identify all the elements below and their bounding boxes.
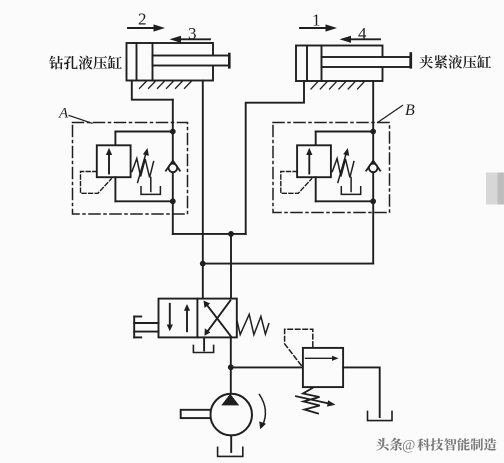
- wire: box A output to P-junction: [173, 233, 246, 235]
- unit B: flow arrow: [308, 153, 310, 174]
- unit A: lower connector wire: [115, 200, 172, 202]
- pump drive shaft: [181, 410, 211, 418]
- scrollbar thumb: [486, 173, 504, 205]
- unit A: sequence valve body: [97, 145, 131, 177]
- manual actuator: [134, 317, 158, 338]
- unit B: inlet stub: [315, 132, 317, 146]
- right position cross arrow 2: [207, 301, 230, 332]
- valve tank symbol: [193, 345, 213, 352]
- pump rotation arrow: [259, 395, 265, 427]
- unit B: pilot line (dashed): [281, 172, 312, 194]
- arrow 1: [300, 24, 337, 31]
- leader line A: [69, 116, 92, 124]
- unit B: adjustable spring: [332, 159, 354, 178]
- arrow 2: [128, 24, 165, 31]
- drilling cylinder rod end: [228, 54, 231, 67]
- valve return spring: [237, 314, 269, 334]
- drilling cylinder piston: [152, 43, 154, 81]
- directional valve divider: [196, 299, 198, 338]
- unit B: check valve: [369, 164, 378, 173]
- directional valve body: [159, 299, 237, 338]
- arrow 4: [340, 36, 381, 43]
- unit A: upper junction node: [170, 129, 176, 135]
- drilling cylinder body: [127, 43, 214, 81]
- left position up arrow: [186, 309, 188, 331]
- clamping cylinder rod: [322, 57, 411, 67]
- wire: valve P to pump: [230, 337, 232, 393]
- relief valve adjustable spring: [303, 388, 320, 414]
- unit A: outlet stub: [114, 177, 116, 201]
- sequence valve unit B: [281, 129, 380, 205]
- unit A: upper connector wire: [115, 131, 172, 133]
- svg-text:B: B: [405, 102, 415, 119]
- enclosure box B (dash-dot): [273, 123, 390, 213]
- unit A: drain line: [150, 178, 152, 192]
- pump circle: [210, 394, 252, 436]
- wire: clamp cap port to junction: [246, 81, 304, 234]
- enclosure box A (dash-dot): [73, 123, 188, 215]
- sequence valve unit A: [81, 129, 180, 205]
- relief tank symbol: [368, 411, 393, 420]
- pump flow triangle: [221, 394, 239, 406]
- valve tank stub: [203, 337, 205, 350]
- unit B: drain tank: [341, 187, 360, 195]
- relief valve pilot line (dashed): [285, 329, 313, 365]
- unit A: check valve: [169, 164, 178, 173]
- unit B: lower junction node: [370, 198, 376, 204]
- clamping cylinder rod end: [409, 54, 412, 68]
- drilling cylinder cap line: [136, 43, 138, 81]
- unit A: adjustable spring: [132, 159, 154, 178]
- pump suction line: [230, 435, 232, 452]
- wire: clamp rod port / main line through box B: [372, 81, 374, 264]
- svg-text:1: 1: [312, 11, 321, 30]
- clamping cylinder piston: [321, 46, 323, 82]
- label: clamping hydraulic cylinder: [419, 55, 491, 69]
- wire: main line through box A: [172, 100, 174, 234]
- wire: drill rod port down to directional valve: [202, 81, 204, 299]
- clamping cylinder body: [296, 46, 383, 82]
- right position cross arrow 1: [207, 304, 231, 336]
- arrow 3: [170, 36, 211, 43]
- unit A: pilot line (dashed): [81, 172, 112, 194]
- unit A: inlet stub: [114, 132, 116, 146]
- junction node rod line: [200, 261, 206, 267]
- wire: drill cap port to valve block A: [132, 81, 173, 100]
- drilling cylinder mount hatching: [140, 82, 192, 89]
- unit B: upper connector wire: [316, 131, 373, 133]
- svg-text:2: 2: [138, 10, 147, 29]
- left position down arrow: [169, 304, 171, 327]
- relief valve body: [303, 348, 343, 387]
- unit B: drain line: [350, 178, 352, 192]
- clamping cylinder mount hatching: [311, 82, 364, 89]
- unit B: sequence valve body: [297, 145, 331, 177]
- junction node P branch: [228, 231, 234, 237]
- label: drilling hydraulic cylinder: [49, 56, 122, 70]
- pump tank symbol: [218, 447, 243, 456]
- wire: relief outlet to tank: [343, 367, 380, 417]
- wire: rod line to box B output: [203, 263, 373, 265]
- wire: junction down to valve P: [230, 234, 232, 299]
- junction node relief branch: [228, 364, 234, 370]
- leader line B: [378, 106, 403, 123]
- svg-text:A: A: [58, 106, 69, 122]
- svg-text:@: @: [402, 438, 415, 454]
- unit B: lower connector wire: [316, 200, 373, 202]
- clamping cylinder cap line: [306, 46, 308, 82]
- relief valve flow arrow: [306, 357, 334, 359]
- wire: pump line to relief valve: [231, 366, 303, 368]
- watermark: toutiao tech: [376, 438, 498, 455]
- unit A: lower junction node: [170, 198, 176, 204]
- unit A: drain tank: [141, 187, 160, 195]
- unit A: flow arrow: [108, 153, 110, 174]
- drilling cylinder rod: [153, 56, 230, 66]
- unit B: upper junction node: [370, 129, 376, 135]
- unit B: outlet stub: [315, 177, 317, 201]
